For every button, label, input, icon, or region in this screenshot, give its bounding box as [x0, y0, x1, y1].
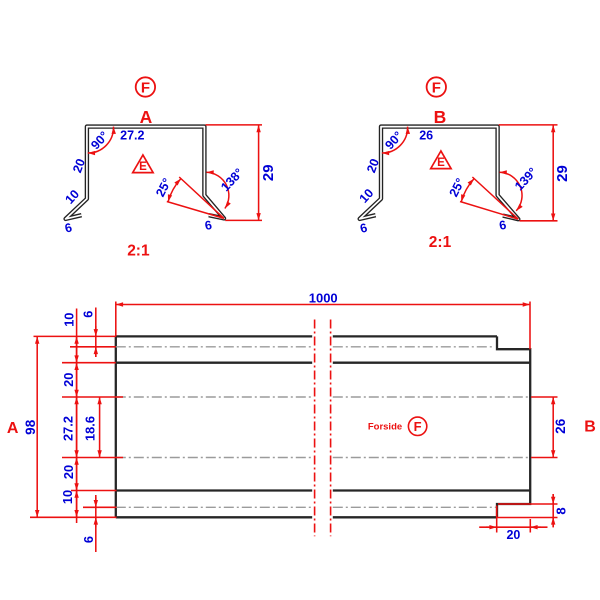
svg-text:6: 6 — [81, 311, 96, 318]
bend centerline y=457.5 — [116, 457, 530, 459]
29 dim line profile A — [258, 125, 260, 220]
18.6 dim line — [99, 397, 101, 458]
8 arrows — [552, 494, 554, 504]
svg-text:27.2: 27.2 — [61, 416, 76, 441]
svg-text:10: 10 — [62, 313, 77, 327]
90 degree arc dimension profile B — [382, 127, 408, 153]
svg-text:139°: 139° — [512, 165, 540, 193]
profile A sheet outline — [66, 127, 224, 219]
flat pattern outline top edge — [116, 335, 497, 337]
6 top arrows — [95, 326, 97, 336]
profile B sheet outline — [360, 127, 519, 220]
svg-text:10: 10 — [357, 186, 377, 206]
fold line solid y=362.7 — [116, 362, 530, 364]
flat pattern bottom edge — [116, 516, 497, 518]
29 dim extension lines profile A — [206, 125, 263, 220]
8 dim extension lines — [498, 504, 558, 518]
20 dim extension lines (bottom right) — [497, 506, 531, 533]
8 dim line — [552, 494, 554, 527]
chain arrows 20 upper — [76, 363, 78, 397]
6 bottom arrows — [95, 497, 97, 507]
1000 dim extension lines — [116, 302, 530, 350]
chain arrows 27.2 — [76, 397, 78, 458]
svg-text:A: A — [140, 107, 153, 127]
svg-text:6: 6 — [204, 218, 213, 233]
svg-text:6: 6 — [498, 218, 507, 233]
25 degree wedge lines profile A — [167, 177, 224, 218]
svg-text:27.2: 27.2 — [120, 129, 144, 143]
triangle symbol E profile B — [431, 151, 451, 169]
svg-text:18.6: 18.6 — [82, 416, 97, 441]
overall height extension lines — [30, 336, 117, 517]
25 degree arc — [168, 179, 181, 202]
svg-text:29: 29 — [260, 164, 277, 181]
surface symbol F (circle) profile B — [427, 77, 446, 96]
svg-text:20: 20 — [506, 528, 520, 542]
svg-text:6: 6 — [359, 221, 369, 236]
svg-text:F: F — [432, 79, 441, 96]
29 dim line profile B — [552, 125, 554, 221]
138 degree arc profile A — [206, 172, 228, 208]
break line left — [314, 320, 316, 537]
bend centerline y=346.8 — [116, 346, 495, 348]
svg-text:2:1: 2:1 — [127, 242, 150, 259]
svg-text:98: 98 — [23, 419, 38, 435]
svg-text:B: B — [434, 107, 447, 127]
20 dim line bottom right — [479, 526, 547, 528]
svg-text:2:1: 2:1 — [429, 234, 452, 251]
svg-text:F: F — [414, 419, 422, 434]
svg-text:20: 20 — [61, 373, 76, 387]
triangle symbol E profile A — [133, 155, 153, 173]
chain arrows 10 bottom — [76, 491, 78, 518]
svg-text:6: 6 — [81, 536, 96, 543]
svg-text:1000: 1000 — [309, 291, 338, 306]
svg-text:F: F — [141, 79, 150, 96]
svg-text:138°: 138° — [218, 166, 246, 194]
6 bottom dim line — [95, 495, 97, 552]
overall 98 dim line — [36, 336, 38, 517]
surface symbol F (flat view) — [408, 417, 426, 435]
svg-text:E: E — [139, 161, 147, 173]
25 degree arc profile B — [461, 179, 474, 202]
flat pattern left edge — [115, 336, 117, 517]
svg-text:A: A — [7, 420, 19, 437]
bend centerline y=504 — [116, 506, 497, 508]
1000 dim line — [116, 304, 530, 306]
139 degree arc profile B — [500, 172, 523, 211]
surface symbol F (circle) profile A — [136, 77, 155, 96]
flat pattern right notch and edge — [497, 336, 530, 517]
svg-text:20: 20 — [61, 465, 76, 479]
break line right — [330, 320, 332, 537]
25 degree wedge lines profile B — [460, 177, 518, 219]
svg-text:29: 29 — [554, 165, 571, 182]
svg-text:90°: 90° — [382, 129, 405, 152]
svg-text:Forside: Forside — [368, 422, 402, 433]
chain arrows 20 lower — [76, 458, 78, 491]
26 dim line — [552, 397, 554, 458]
20 arrows bottom right — [486, 526, 497, 528]
90 degree arc dimension — [88, 127, 114, 153]
6 top dim line — [95, 308, 97, 358]
chain arrows 10 top — [76, 336, 78, 362]
26 dim extension lines (right) — [531, 397, 558, 458]
left chain dim line — [76, 309, 78, 524]
svg-text:6: 6 — [63, 220, 73, 235]
svg-text:E: E — [437, 157, 445, 169]
bend centerline y=397 — [116, 396, 530, 398]
svg-text:26: 26 — [553, 418, 568, 434]
svg-text:25°: 25° — [153, 176, 174, 199]
29 dim extension lines profile B — [499, 125, 558, 221]
svg-text:8: 8 — [553, 507, 568, 514]
svg-text:25°: 25° — [447, 176, 468, 199]
left chain extension lines — [62, 347, 123, 508]
svg-text:90°: 90° — [88, 129, 111, 152]
fold line solid y=490.5 — [116, 489, 530, 491]
svg-text:B: B — [584, 419, 596, 436]
svg-text:26: 26 — [419, 129, 433, 143]
svg-text:10: 10 — [60, 490, 75, 504]
